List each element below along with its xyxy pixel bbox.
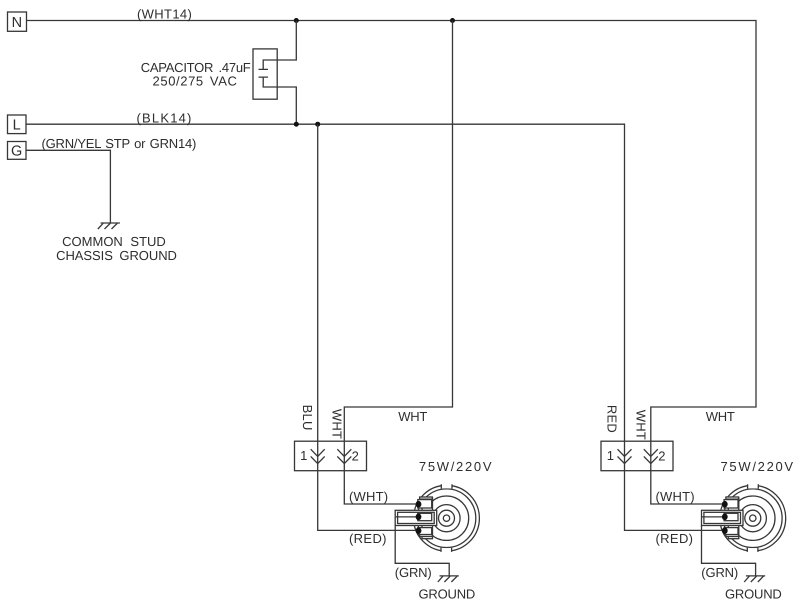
middle terminal frame (double rect) — [395, 510, 437, 525]
bottom notch — [747, 548, 758, 553]
wire N bus (WHT14) — [27, 21, 757, 505]
wire (GRN) left to ground — [395, 526, 449, 576]
terminal tab top — [724, 500, 738, 508]
inner circles — [731, 496, 775, 540]
node junction N bus / left WHT riser — [450, 18, 455, 23]
chassis ground symbol left lamp — [438, 576, 459, 582]
svg-text:CHASSIS GROUND: CHASSIS GROUND — [56, 248, 177, 263]
svg-text:L: L — [13, 118, 21, 134]
wire left WHT riser — [344, 21, 452, 505]
svg-text:(GRN): (GRN) — [395, 565, 432, 580]
svg-text:(BLK14): (BLK14) — [137, 110, 193, 125]
bottom lug — [420, 534, 433, 536]
svg-text:75W/220V: 75W/220V — [721, 459, 795, 474]
bottom notch — [441, 548, 452, 553]
top notch — [748, 484, 759, 489]
svg-text:WHT: WHT — [634, 410, 649, 440]
lamp motor M1 (left) — [395, 484, 479, 553]
outer ring — [414, 485, 480, 551]
terminal tab top — [418, 500, 432, 508]
svg-text:2: 2 — [658, 449, 665, 464]
svg-text:(GRN/YEL STP or GRN14): (GRN/YEL STP or GRN14) — [42, 136, 197, 151]
svg-text:(WHT14): (WHT14) — [137, 7, 192, 22]
terminal tab bottom — [724, 528, 738, 535]
outer ring — [720, 485, 786, 551]
svg-text:G: G — [11, 144, 22, 160]
capacitor C1 leads — [263, 21, 296, 125]
svg-text:1: 1 — [300, 448, 307, 463]
middle terminal frame (double rect) — [702, 510, 744, 525]
top notch — [441, 484, 452, 489]
wire left BLU drop to connector / (RED) to lamp — [318, 124, 419, 530]
connector J1 box — [295, 441, 367, 471]
svg-text:1: 1 — [607, 448, 614, 463]
svg-text:75W/220V: 75W/220V — [419, 459, 493, 474]
svg-text:(WHT): (WHT) — [656, 489, 695, 504]
svg-text:RED: RED — [604, 405, 619, 433]
wire (GRN) right to ground — [702, 526, 756, 576]
terminal block body — [728, 498, 739, 539]
svg-text:GROUND: GROUND — [725, 586, 782, 601]
terminal N box — [8, 12, 27, 31]
middle terminal wire — [702, 516, 724, 518]
terminal L box — [8, 115, 27, 134]
top lug — [726, 497, 739, 499]
svg-text:COMMON STUD: COMMON STUD — [62, 234, 166, 249]
svg-text:WHT: WHT — [329, 409, 344, 439]
node junction N bus / capacitor — [294, 18, 299, 23]
wire right (RED) to lamp — [625, 442, 725, 531]
connector J2 pin 2 chevrons — [644, 449, 658, 463]
svg-text:(RED): (RED) — [349, 531, 387, 546]
inner circles — [424, 496, 468, 540]
terminal contact dots — [722, 501, 728, 508]
terminal tab middle — [724, 513, 738, 520]
svg-text:(GRN): (GRN) — [701, 565, 738, 580]
connector J2 pin 1 chevrons — [618, 449, 632, 463]
top lug — [420, 497, 433, 499]
middle terminal wire — [395, 516, 417, 518]
terminal tab bottom — [418, 528, 432, 535]
connector J1 pin 2 chevrons — [337, 449, 351, 463]
terminal contact dots — [416, 501, 422, 508]
terminal tab middle — [418, 513, 432, 520]
capacitor C1 plates — [259, 69, 269, 77]
node junction BLK14 / capacitor — [294, 122, 299, 127]
lamp motor M2 (right) — [702, 484, 786, 553]
wire G to chassis ground — [26, 150, 110, 223]
svg-text:BLU: BLU — [300, 405, 315, 431]
chassis ground symbol right lamp — [744, 576, 765, 582]
bottom lug — [726, 534, 739, 536]
terminal G box — [8, 142, 27, 160]
svg-text:N: N — [12, 15, 23, 31]
svg-text:WHT: WHT — [398, 409, 427, 424]
node junction BLK14 / left BLU drop — [315, 122, 320, 127]
svg-text:(RED): (RED) — [656, 531, 694, 546]
capacitor C1 body — [253, 49, 277, 99]
svg-text:250/275 VAC: 250/275 VAC — [153, 73, 238, 88]
svg-text:GROUND: GROUND — [419, 586, 476, 601]
connector J2 box — [601, 441, 673, 471]
chassis ground symbol (common stud) — [98, 223, 120, 229]
connector J1 pin 1 chevrons — [311, 449, 325, 463]
svg-text:(WHT): (WHT) — [349, 489, 388, 504]
svg-text:WHT: WHT — [706, 409, 735, 424]
terminal block body — [422, 498, 433, 539]
svg-text:2: 2 — [352, 449, 359, 464]
wire L bus (BLK14) — [26, 124, 625, 441]
